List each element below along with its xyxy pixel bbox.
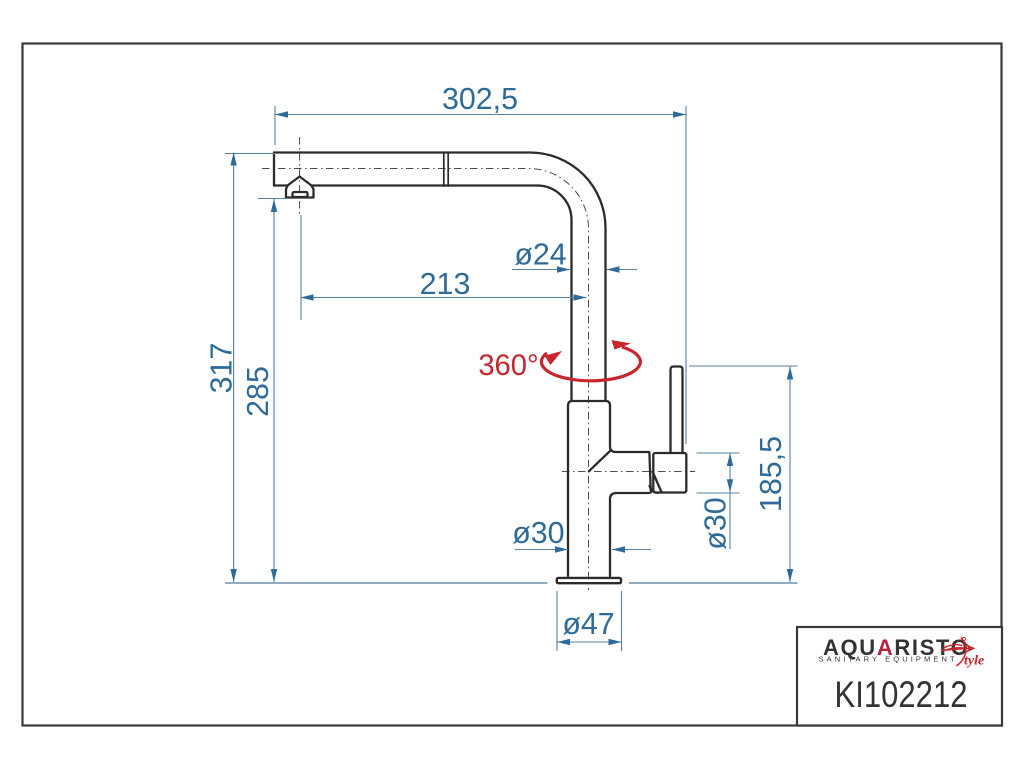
dim 302,5 extension left xyxy=(274,106,276,145)
arrow 285 top xyxy=(271,199,277,212)
dim 213 extension left xyxy=(300,215,302,320)
svg-text:185,5: 185,5 xyxy=(754,436,788,512)
hub cap parting diagonal xyxy=(653,472,662,493)
arrow o24 left xyxy=(557,266,570,272)
svg-text:285: 285 xyxy=(241,366,275,417)
rotation arc xyxy=(541,347,640,381)
dim 213 line xyxy=(301,297,587,299)
arrow 317 bottom xyxy=(230,569,236,582)
svg-text:SANITARY EQUIPMENT: SANITARY EQUIPMENT xyxy=(819,655,958,664)
dim o30 left lines xyxy=(515,549,651,551)
body chamfer diagonal xyxy=(589,451,610,471)
arrow 285 bottom xyxy=(271,569,277,582)
arrow 185,5 top xyxy=(787,367,793,380)
svg-text:tyle: tyle xyxy=(964,654,984,669)
spray head body xyxy=(286,186,314,198)
hub cap parting arc xyxy=(650,486,659,493)
dim 185,5 extension top xyxy=(689,365,798,367)
floor reference line xyxy=(225,582,798,584)
dim o47 line xyxy=(557,641,622,643)
dim 285 extension top xyxy=(258,198,292,200)
arrow o30 left-left xyxy=(555,546,568,552)
centerline handle branch horizontal xyxy=(562,471,695,473)
spout top edge, outer bend, riser right edge xyxy=(274,153,606,401)
svg-text:ø30: ø30 xyxy=(512,516,564,550)
spout left end edge xyxy=(273,153,275,186)
dim o30 right line xyxy=(729,453,731,549)
dim 317 line xyxy=(233,153,235,583)
base flange xyxy=(557,578,621,583)
svg-text:213: 213 xyxy=(420,267,471,301)
svg-text:360°: 360° xyxy=(478,350,538,382)
spray head aerator slot xyxy=(293,192,308,197)
logo AQUARISTO xyxy=(819,635,970,664)
arrow o24 right xyxy=(607,266,620,272)
branch bottom edge, corner, body right edge lower xyxy=(610,493,649,576)
body right edge upper, corner into branch top xyxy=(610,406,649,452)
spout bottom edge, spray head roof, inner bend, riser left edge xyxy=(274,177,572,401)
arrow o30 left-right xyxy=(612,546,625,552)
svg-text:ø24: ø24 xyxy=(514,238,566,272)
dim 302,5 extension right xyxy=(685,106,687,444)
rotation arrowhead right xyxy=(612,340,632,350)
svg-text:ø30: ø30 xyxy=(699,497,733,549)
dim 185,5 line xyxy=(789,367,791,583)
arrow 185,5 bottom xyxy=(787,569,793,582)
arrow o30 right-bottom xyxy=(727,479,733,492)
dim 285 line xyxy=(273,199,275,582)
svg-text:KI102212: KI102212 xyxy=(834,675,967,716)
dim o30 right extensions xyxy=(697,453,740,493)
svg-text:317: 317 xyxy=(205,343,239,394)
joint line branch/hub xyxy=(649,453,650,493)
arrow 213 left xyxy=(301,294,314,300)
rotation arrowhead left xyxy=(545,351,563,365)
spout joint line 2 xyxy=(447,153,449,187)
arrow o47 left xyxy=(557,639,570,645)
arrow o30 right-top xyxy=(727,453,733,466)
dim 317 extension top xyxy=(225,153,276,155)
dim o47 extensions xyxy=(557,591,622,651)
logo arrow through O xyxy=(941,637,972,666)
spout joint line 1 xyxy=(443,153,445,187)
dim 302,5 line xyxy=(275,114,686,116)
arrow 317 top xyxy=(230,153,236,166)
arrow 302,5 right xyxy=(673,111,686,117)
body top step and left edge down to base xyxy=(568,401,610,576)
svg-text:302,5: 302,5 xyxy=(442,82,518,116)
centerline spray head vertical xyxy=(299,137,301,214)
dim o24 lines xyxy=(512,269,637,271)
arrow o47 right xyxy=(609,639,622,645)
centerline spout horizontal + bend arc + riser vertical xyxy=(262,169,589,591)
arrow 213 right xyxy=(574,294,587,300)
handle hub xyxy=(653,453,686,493)
svg-text:ø47: ø47 xyxy=(562,607,614,641)
arrow 302,5 left xyxy=(275,111,288,117)
handle lever rod xyxy=(671,367,683,454)
